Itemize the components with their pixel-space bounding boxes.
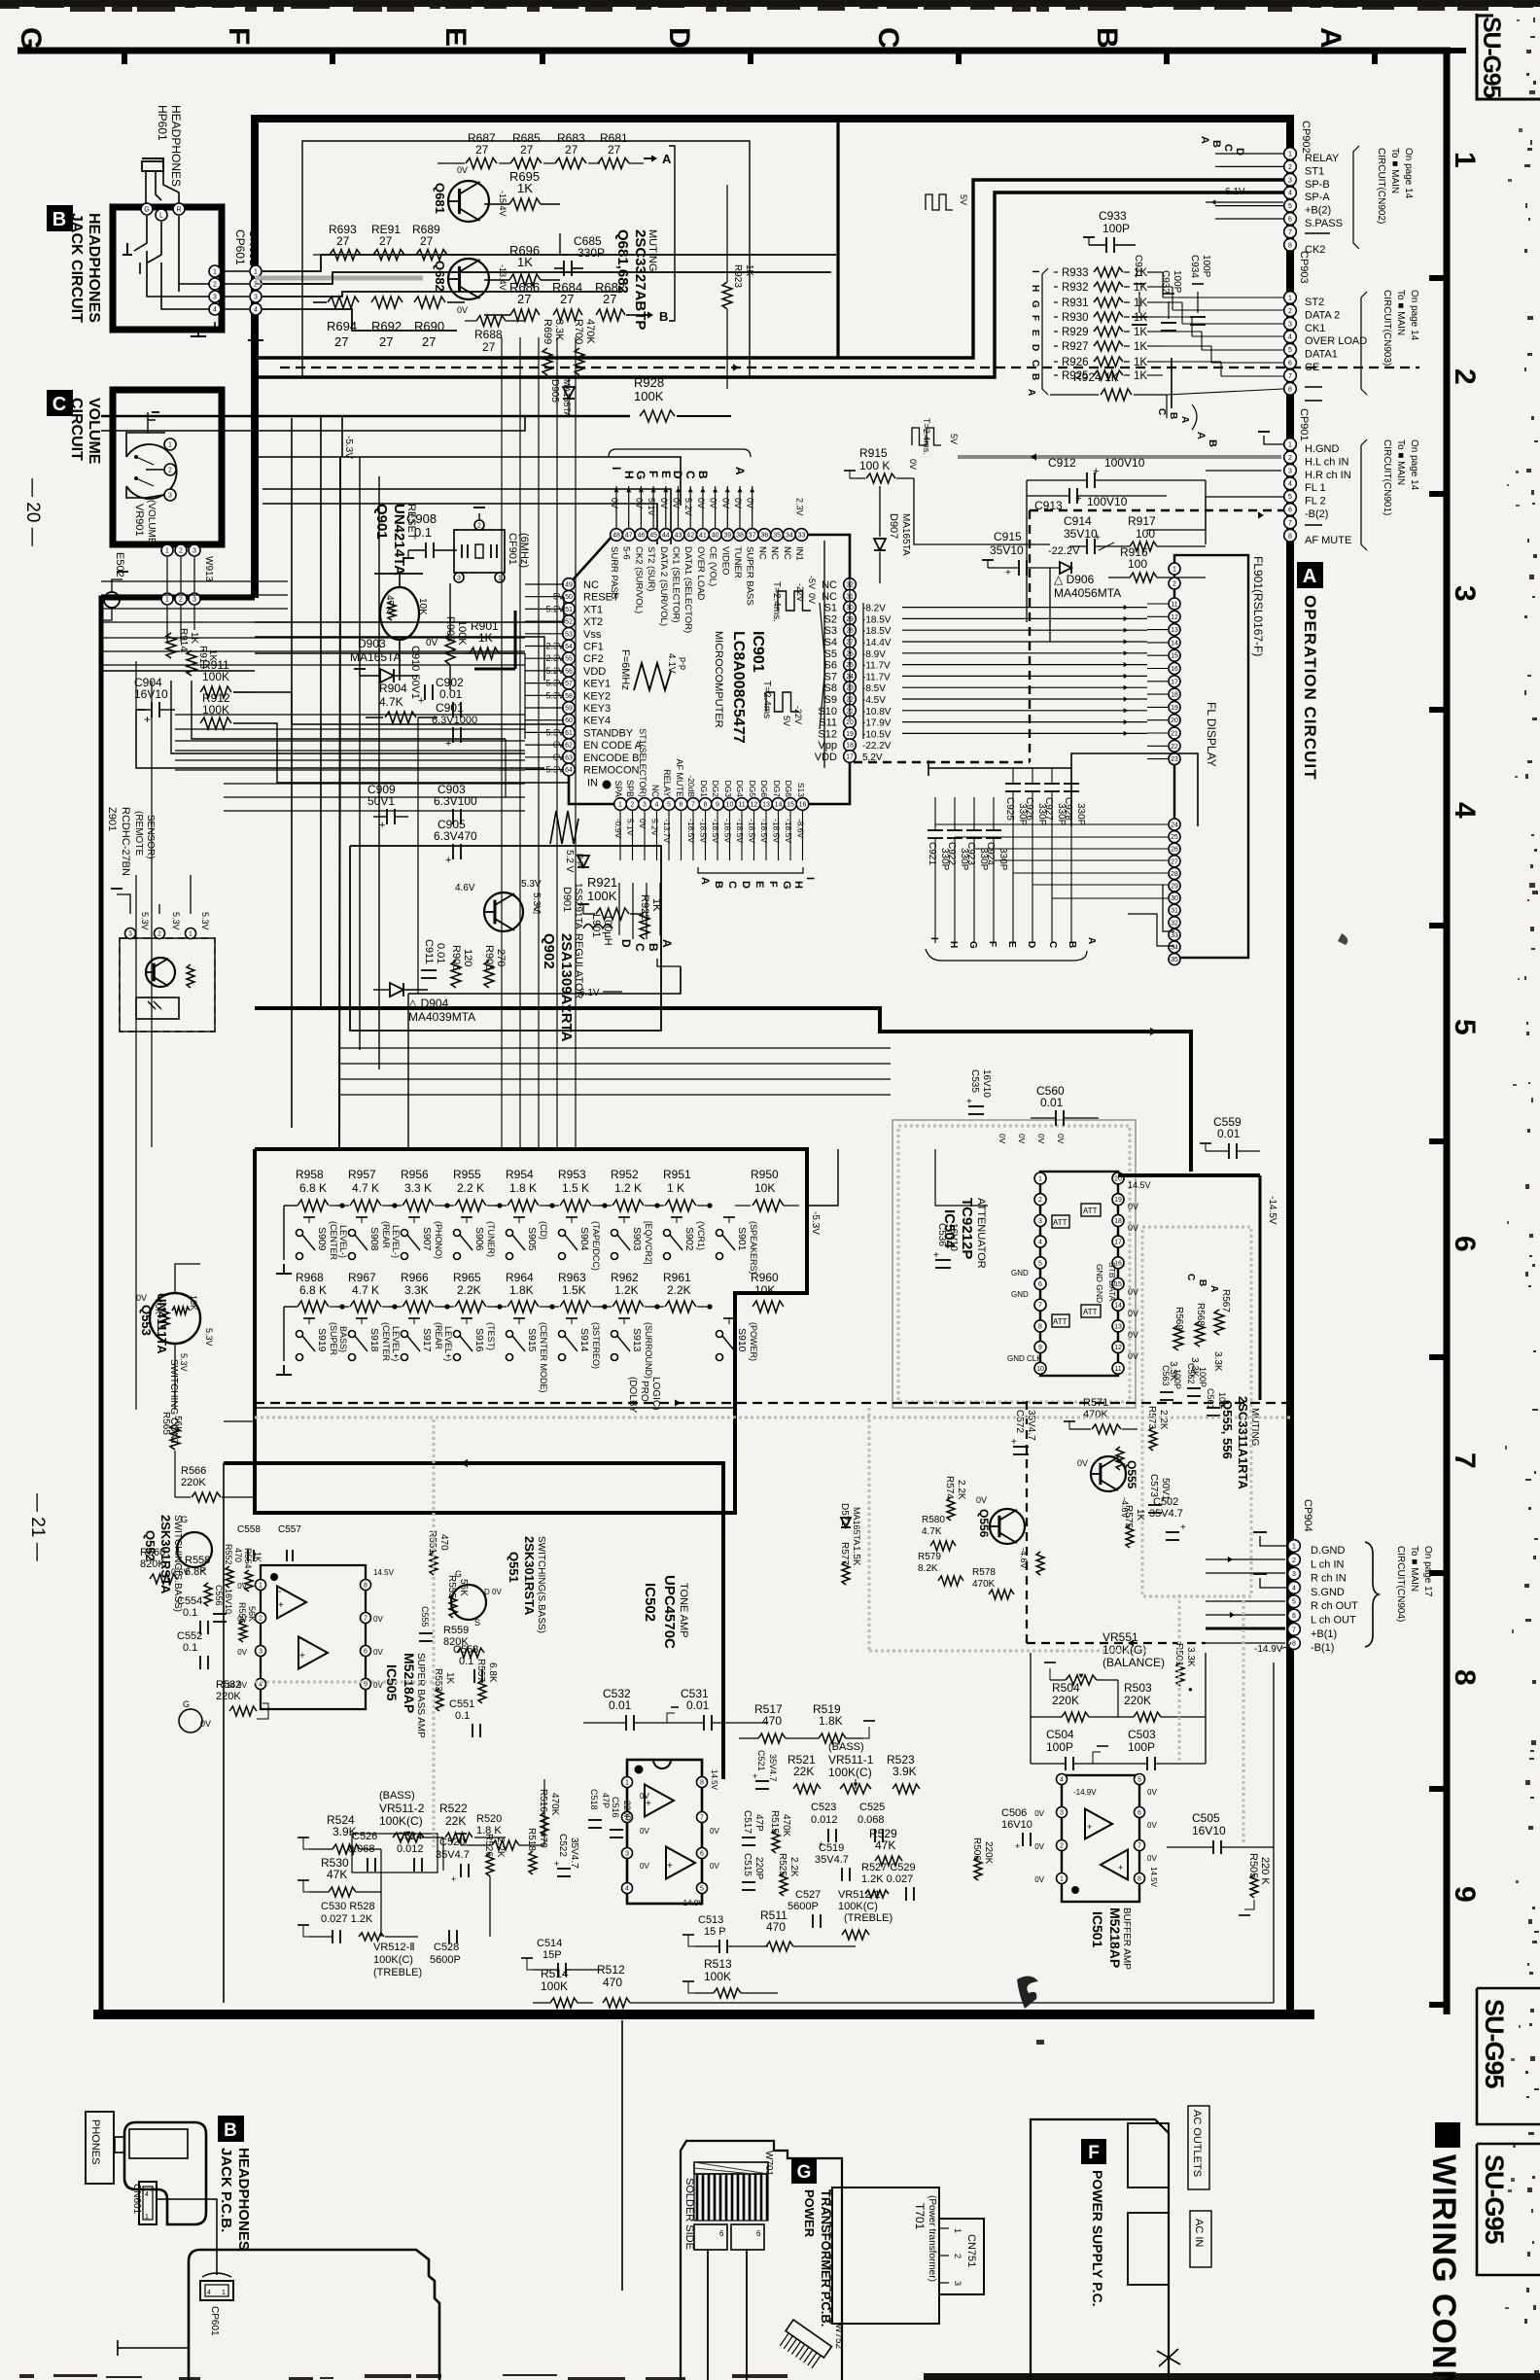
svg-text:R688: R688 bbox=[474, 328, 503, 341]
svg-text:7: 7 bbox=[1449, 1452, 1481, 1469]
Q553 wires bbox=[174, 1344, 176, 1410]
svg-text:1.8K: 1.8K bbox=[819, 1714, 843, 1728]
svg-text:C561: C561 bbox=[1206, 1388, 1215, 1410]
svg-text:-14.9V: -14.9V bbox=[224, 1681, 247, 1690]
wire network bbox=[101, 358, 1206, 2291]
svg-text:-22V: -22V bbox=[795, 583, 805, 602]
svg-text:+B(2): +B(2) bbox=[1305, 205, 1331, 217]
CP901 pin labels bbox=[1305, 443, 1351, 546]
svg-text:-10.8V: -10.8V bbox=[862, 707, 892, 717]
CP904 pins 1-8 bbox=[1288, 1540, 1301, 1650]
svg-text:0V: 0V bbox=[1034, 1809, 1044, 1818]
svg-text:A: A bbox=[1303, 566, 1316, 587]
svg-text:TC9212P: TC9212P bbox=[959, 1198, 975, 1259]
svg-text:C934: C934 bbox=[1189, 255, 1200, 278]
svg-text:C562: C562 bbox=[1186, 1363, 1196, 1384]
svg-text:100K: 100K bbox=[587, 889, 617, 903]
svg-text:— 20 —: — 20 — bbox=[22, 478, 43, 546]
svg-text:39: 39 bbox=[723, 533, 731, 540]
svg-text:10: 10 bbox=[1036, 1366, 1044, 1373]
svg-text:2: 2 bbox=[477, 523, 481, 530]
connector CN601 pins bbox=[209, 265, 221, 277]
wires VR901 to W913x bbox=[166, 557, 168, 592]
wire CP601-3 bus bbox=[262, 292, 622, 297]
svg-text:47P: 47P bbox=[753, 1814, 764, 1832]
svg-text:2SC3311A1RTA: 2SC3311A1RTA bbox=[1236, 1396, 1250, 1489]
svg-text:0.027 1.2K: 0.027 1.2K bbox=[321, 1913, 373, 1925]
svg-text:0V: 0V bbox=[634, 498, 644, 508]
svg-text:F=6MHz: F=6MHz bbox=[619, 649, 631, 690]
svg-text:GND: GND bbox=[1011, 1269, 1029, 1277]
svg-text:G: G bbox=[15, 27, 47, 50]
svg-text:2: 2 bbox=[1288, 164, 1292, 171]
jack pins G L R bbox=[141, 203, 153, 215]
svg-text:100P: 100P bbox=[1172, 270, 1182, 294]
svg-text:C: C bbox=[726, 881, 738, 889]
svg-text:22K: 22K bbox=[445, 1814, 466, 1828]
svg-text:-14.9V: -14.9V bbox=[1073, 1788, 1097, 1797]
svg-text:(SPEAKERS): (SPEAKERS) bbox=[749, 1221, 758, 1275]
svg-text:S919: S919 bbox=[316, 1328, 328, 1352]
svg-text:0V: 0V bbox=[672, 498, 682, 508]
transistor Q681 bbox=[448, 181, 489, 222]
svg-text:B: B bbox=[1091, 27, 1123, 49]
svg-text:820K: 820K bbox=[443, 1636, 469, 1648]
capacitors C925-C928 330P bbox=[1004, 768, 1086, 943]
svg-text:-8.2V: -8.2V bbox=[862, 604, 886, 614]
svg-text:-10.5V: -10.5V bbox=[862, 729, 892, 740]
svg-text:MA4039MTA: MA4039MTA bbox=[408, 1010, 475, 1024]
FL bottom stub wires bbox=[1128, 914, 1174, 946]
wires S1-S12 to FL display bbox=[902, 605, 1147, 736]
svg-text:R559: R559 bbox=[443, 1625, 469, 1636]
IC901 right pins 32-17 bbox=[844, 578, 857, 763]
svg-text:4.6V: 4.6V bbox=[455, 883, 475, 893]
svg-text:470K: 470K bbox=[584, 319, 596, 344]
svg-text:0V: 0V bbox=[1128, 1330, 1138, 1340]
wire 5.3V drop bbox=[341, 416, 343, 457]
svg-text:0.068: 0.068 bbox=[857, 1814, 885, 1826]
svg-text:+B(1): +B(1) bbox=[1311, 1628, 1337, 1640]
svg-text:BASS): BASS) bbox=[338, 1326, 348, 1352]
svg-text:-13.4V: -13.4V bbox=[498, 264, 507, 291]
section tag A bbox=[1297, 562, 1323, 588]
svg-text:C503: C503 bbox=[1128, 1728, 1156, 1741]
svg-text:CK1 (SELECTOR): CK1 (SELECTOR) bbox=[671, 546, 682, 622]
svg-text:14.5V: 14.5V bbox=[1128, 1180, 1151, 1190]
svg-text:R ch OUT: R ch OUT bbox=[1311, 1600, 1358, 1612]
svg-text:4.7K: 4.7K bbox=[379, 695, 403, 709]
svg-text:H.R ch IN: H.R ch IN bbox=[1305, 470, 1351, 481]
svg-text:0V: 0V bbox=[696, 498, 706, 508]
svg-text:(PHONO): (PHONO) bbox=[434, 1221, 443, 1259]
svg-text:0V: 0V bbox=[1147, 1821, 1157, 1830]
svg-text:2: 2 bbox=[259, 1616, 262, 1623]
grid ruler right ticks bbox=[1429, 278, 1447, 2005]
muting block border bbox=[302, 141, 750, 376]
svg-text:20: 20 bbox=[1171, 717, 1178, 724]
svg-text:35V4.7: 35V4.7 bbox=[436, 1849, 470, 1861]
wire row A arrow bbox=[644, 157, 653, 159]
svg-text:38: 38 bbox=[736, 533, 744, 540]
svg-text:R956: R956 bbox=[401, 1168, 429, 1181]
svg-text:2.2K: 2.2K bbox=[788, 1857, 799, 1877]
svg-text:VR511-1: VR511-1 bbox=[828, 1753, 874, 1767]
svg-text:0V: 0V bbox=[1147, 1788, 1157, 1797]
svg-text:5.1V: 5.1V bbox=[626, 819, 636, 836]
svg-text:A: A bbox=[1086, 937, 1097, 944]
svg-text:3: 3 bbox=[1292, 1571, 1296, 1578]
svg-text:C528: C528 bbox=[434, 1942, 459, 1953]
svg-text:S13: S13 bbox=[796, 783, 806, 797]
svg-text:H.L ch IN: H.L ch IN bbox=[1305, 456, 1348, 468]
cap ladder top rail bbox=[928, 767, 1071, 769]
svg-text:C516: C516 bbox=[611, 1797, 620, 1818]
svg-text:270: 270 bbox=[495, 949, 507, 966]
svg-text:R924 1K: R924 1K bbox=[1073, 370, 1119, 384]
power supply wire bbox=[1168, 2285, 1170, 2362]
svg-text:1K: 1K bbox=[1134, 267, 1147, 279]
svg-text:ST1(SELECTOR): ST1(SELECTOR) bbox=[638, 728, 647, 797]
CP902 wires bbox=[1215, 154, 1283, 219]
svg-text:(CENTER: (CENTER bbox=[381, 1322, 391, 1361]
wire cn601 to cp601 bbox=[157, 2199, 217, 2275]
svg-text:TONE AMP: TONE AMP bbox=[678, 1583, 689, 1638]
svg-text:3: 3 bbox=[254, 295, 258, 301]
waveform 5V CP902 side bbox=[926, 194, 953, 210]
svg-text:R957: R957 bbox=[348, 1168, 376, 1181]
svg-text:8: 8 bbox=[1288, 386, 1292, 393]
svg-text:2: 2 bbox=[1449, 368, 1481, 385]
svg-text:12: 12 bbox=[1171, 614, 1178, 621]
svg-text:UN4111TA: UN4111TA bbox=[155, 1293, 169, 1354]
IC901 bottom pins 1-16 bbox=[614, 798, 809, 811]
svg-text:53: 53 bbox=[565, 631, 573, 638]
svg-text:6: 6 bbox=[1137, 1810, 1141, 1817]
thick wire left down bbox=[223, 1463, 225, 2003]
svg-text:43: 43 bbox=[675, 533, 682, 540]
transformer connector hatch bbox=[694, 2162, 768, 2174]
connector CN601 bottom bbox=[139, 2182, 157, 2224]
transformer pcb outline bbox=[681, 2141, 842, 2380]
svg-text:18: 18 bbox=[846, 743, 854, 750]
svg-text:R503: R503 bbox=[1124, 1681, 1152, 1695]
resistors R694 R692 R690 bbox=[313, 301, 327, 303]
wire jack to CP601 bbox=[147, 251, 215, 297]
svg-text:1SS291TA: 1SS291TA bbox=[573, 883, 583, 929]
svg-text:G: G bbox=[181, 1515, 188, 1524]
svg-text:1.5 K: 1.5 K bbox=[562, 1181, 589, 1195]
svg-text:26: 26 bbox=[1171, 847, 1178, 854]
svg-text:SPA: SPA bbox=[613, 781, 623, 797]
svg-text:I: I bbox=[610, 467, 623, 470]
svg-text:4: 4 bbox=[207, 2290, 211, 2296]
CP902 pin labels bbox=[1305, 153, 1343, 256]
matrix bus rails bbox=[283, 1206, 285, 1260]
svg-text:F: F bbox=[1088, 2143, 1100, 2163]
VR901 top stub bbox=[148, 420, 156, 433]
svg-text:45: 45 bbox=[649, 533, 657, 540]
svg-text:46: 46 bbox=[638, 533, 646, 540]
jack pcb outline bbox=[189, 2250, 439, 2380]
svg-text:-22V: -22V bbox=[793, 706, 803, 724]
svg-text:1.2K 0.027: 1.2K 0.027 bbox=[861, 1873, 913, 1885]
svg-text:(BALANCE): (BALANCE) bbox=[1102, 1656, 1165, 1669]
svg-text:1K: 1K bbox=[1134, 327, 1147, 338]
svg-text:CIRCUIT: CIRCUIT bbox=[68, 398, 85, 461]
resistor ladder R933-R925 bbox=[1054, 267, 1147, 382]
svg-text:ATTENUATOR: ATTENUATOR bbox=[975, 1198, 987, 1269]
svg-text:47K: 47K bbox=[327, 1868, 347, 1881]
svg-text:C523: C523 bbox=[811, 1802, 836, 1813]
IC504 ATT boxes bbox=[1081, 1204, 1101, 1216]
main schematic frame bbox=[255, 119, 1290, 2011]
wire bottom bus1 bbox=[224, 2002, 1274, 2004]
svg-text:3.3K: 3.3K bbox=[1212, 1351, 1223, 1372]
svg-text:G: G bbox=[455, 1569, 462, 1579]
svg-text:27: 27 bbox=[482, 340, 496, 354]
svg-text:+: + bbox=[278, 1600, 284, 1611]
svg-text:C901: C901 bbox=[436, 701, 464, 715]
capacitors C921-C924 330P bbox=[927, 797, 1008, 943]
svg-text:POWER: POWER bbox=[802, 2189, 817, 2238]
svg-text:(VCR1): (VCR1) bbox=[696, 1221, 706, 1250]
stipple region attenuator bbox=[892, 1120, 1136, 1408]
svg-text:22K: 22K bbox=[793, 1765, 814, 1778]
svg-text:D901: D901 bbox=[561, 887, 573, 912]
SU-G95 label 2 box bbox=[1477, 1988, 1540, 2124]
svg-text:R518: R518 bbox=[526, 1828, 537, 1851]
AC outlet box2 bbox=[1128, 2213, 1169, 2285]
headphones jack circuit box bbox=[113, 207, 222, 330]
svg-text:[EQ/VCR2]: [EQ/VCR2] bbox=[644, 1221, 653, 1265]
svg-text:S6: S6 bbox=[824, 660, 837, 672]
section tag C bbox=[47, 390, 73, 416]
power supply outline bbox=[1031, 2119, 1169, 2380]
svg-text:0.012: 0.012 bbox=[397, 1843, 424, 1855]
thick wire pin20 bbox=[1118, 1173, 1260, 1177]
svg-text:220K: 220K bbox=[1124, 1694, 1151, 1707]
svg-text:6.1V: 6.1V bbox=[1225, 187, 1245, 197]
wires left frame area bbox=[101, 602, 136, 604]
svg-text:27: 27 bbox=[336, 234, 350, 248]
svg-text:S910: S910 bbox=[736, 1328, 748, 1352]
svg-text:-11.7V: -11.7V bbox=[862, 661, 891, 672]
svg-text:R690: R690 bbox=[414, 319, 444, 333]
svg-text:2: 2 bbox=[631, 802, 635, 809]
svg-text:3: 3 bbox=[1038, 1218, 1042, 1225]
svg-text:+: + bbox=[667, 1861, 673, 1872]
svg-text:1.8K: 1.8K bbox=[509, 1283, 534, 1297]
svg-text:SUPER BASS AMP: SUPER BASS AMP bbox=[415, 1653, 426, 1738]
Z901 top stub bbox=[117, 894, 130, 914]
svg-text:16V10: 16V10 bbox=[1192, 1824, 1226, 1837]
svg-text:R930: R930 bbox=[1062, 312, 1089, 324]
svg-text:47K: 47K bbox=[875, 1838, 895, 1852]
svg-text:56: 56 bbox=[565, 668, 573, 675]
svg-text:FL 2: FL 2 bbox=[1305, 496, 1326, 507]
svg-text:100P: 100P bbox=[1128, 1740, 1155, 1754]
svg-text:R921: R921 bbox=[587, 875, 617, 890]
svg-text:Q555, 556: Q555, 556 bbox=[1220, 1400, 1235, 1459]
svg-text:H: H bbox=[622, 471, 636, 479]
svg-text:2: 2 bbox=[1288, 308, 1292, 315]
svg-text:6: 6 bbox=[1288, 507, 1292, 514]
svg-text:SWITCHING(S.BASS): SWITCHING(S.BASS) bbox=[536, 1536, 546, 1633]
svg-text:C912: C912 bbox=[1048, 456, 1076, 470]
svg-text:18: 18 bbox=[1114, 1218, 1122, 1225]
svg-text:SUPER BASS: SUPER BASS bbox=[745, 546, 755, 606]
transistor Q556 bbox=[990, 1509, 1025, 1544]
svg-text:2.2K: 2.2K bbox=[1158, 1410, 1169, 1430]
svg-text:4: 4 bbox=[1449, 802, 1481, 819]
svg-text:(CENTER MODE): (CENTER MODE) bbox=[539, 1322, 548, 1393]
svg-text:D: D bbox=[671, 471, 684, 479]
svg-text:R927: R927 bbox=[1062, 341, 1089, 353]
svg-text:470: 470 bbox=[538, 1832, 548, 1848]
svg-text:C563: C563 bbox=[1161, 1365, 1171, 1386]
svg-text:40: 40 bbox=[712, 533, 719, 540]
svg-text:C933: C933 bbox=[1099, 209, 1127, 223]
svg-text:(TAPE/DCC): (TAPE/DCC) bbox=[591, 1221, 601, 1271]
svg-text:3: 3 bbox=[643, 802, 647, 809]
svg-text:-22.2V: -22.2V bbox=[1048, 545, 1080, 557]
T701 connector CN751 bbox=[939, 2219, 984, 2294]
svg-text:2.3V: 2.3V bbox=[795, 498, 805, 516]
svg-text:RELAY: RELAY bbox=[1305, 153, 1340, 164]
svg-text:D903: D903 bbox=[358, 637, 386, 650]
svg-text:0V: 0V bbox=[136, 1293, 147, 1303]
svg-text:100P: 100P bbox=[1102, 222, 1130, 235]
svg-text:1: 1 bbox=[189, 931, 192, 938]
section tag B bbox=[47, 205, 73, 231]
IC901 top pin labels bbox=[609, 546, 805, 633]
IC505 pins bbox=[256, 1580, 266, 1591]
dashed wire transformer bbox=[829, 2189, 831, 2324]
svg-text:To ■ MAIN: To ■ MAIN bbox=[1409, 1546, 1419, 1592]
svg-text:R: R bbox=[176, 207, 181, 214]
svg-text:H: H bbox=[948, 941, 959, 948]
svg-text:DATA 2 (SUR/VOL): DATA 2 (SUR/VOL) bbox=[658, 546, 669, 626]
svg-text:470K: 470K bbox=[549, 1793, 560, 1816]
svg-text:C515: C515 bbox=[742, 1853, 752, 1876]
svg-text:+: + bbox=[1118, 1863, 1123, 1872]
svg-text:FL901(RSL0167-F): FL901(RSL0167-F) bbox=[1251, 556, 1265, 656]
svg-text:ATT: ATT bbox=[1053, 1317, 1067, 1326]
svg-text:51: 51 bbox=[565, 607, 573, 613]
opamp IC505a bbox=[277, 1587, 306, 1619]
svg-text:11: 11 bbox=[1171, 602, 1177, 609]
svg-text:35V10: 35V10 bbox=[990, 543, 1024, 557]
grid ruler top ticks bbox=[124, 51, 1375, 64]
svg-text:100K(C): 100K(C) bbox=[828, 1766, 872, 1779]
svg-text:35: 35 bbox=[773, 533, 781, 540]
svg-text:55: 55 bbox=[565, 656, 573, 663]
svg-text:16V10: 16V10 bbox=[981, 1069, 992, 1098]
svg-text:2: 2 bbox=[1292, 1557, 1296, 1564]
svg-text:100K: 100K bbox=[541, 1979, 568, 1993]
svg-text:100: 100 bbox=[1128, 557, 1147, 571]
torn paper top edge bbox=[0, 0, 1540, 12]
svg-text:7: 7 bbox=[1288, 520, 1292, 527]
svg-text:31: 31 bbox=[1171, 908, 1178, 915]
svg-text:KEY4: KEY4 bbox=[583, 716, 611, 727]
svg-text:DG1: DG1 bbox=[699, 781, 709, 798]
VR901 wiper arrows bbox=[136, 457, 154, 465]
svg-text:R966: R966 bbox=[401, 1271, 429, 1284]
svg-text:DG8: DG8 bbox=[784, 781, 793, 798]
svg-text:0V: 0V bbox=[1128, 1351, 1138, 1361]
svg-text:-5V: -5V bbox=[807, 576, 817, 589]
svg-text:C: C bbox=[52, 394, 66, 415]
svg-text:C519: C519 bbox=[819, 1842, 844, 1854]
svg-text:R ch IN: R ch IN bbox=[1311, 1573, 1347, 1585]
svg-text:0V: 0V bbox=[638, 819, 647, 829]
svg-text:1K: 1K bbox=[1134, 357, 1147, 368]
svg-text:POWER SUPPLY P.C.: POWER SUPPLY P.C. bbox=[1090, 2170, 1105, 2307]
svg-text:IC502: IC502 bbox=[642, 1583, 658, 1622]
wire y428 with diode bbox=[101, 415, 630, 418]
svg-text:2: 2 bbox=[1172, 581, 1176, 588]
svg-text:4.7 K: 4.7 K bbox=[352, 1283, 379, 1297]
svg-text:R578: R578 bbox=[972, 1567, 996, 1578]
svg-text:29: 29 bbox=[1171, 884, 1178, 891]
svg-text:5600P: 5600P bbox=[430, 1954, 461, 1966]
grid ruler corner tick bbox=[1447, 48, 1466, 53]
svg-text:KEY2: KEY2 bbox=[583, 690, 611, 702]
svg-text:C535: C535 bbox=[969, 1069, 980, 1093]
svg-text:R955: R955 bbox=[453, 1168, 481, 1181]
svg-text:220K: 220K bbox=[181, 1477, 206, 1488]
svg-text:R950: R950 bbox=[751, 1168, 779, 1181]
svg-text:R565: R565 bbox=[160, 1412, 171, 1435]
svg-text:JACK CIRCUIT: JACK CIRCUIT bbox=[68, 213, 85, 323]
svg-text:2: 2 bbox=[1060, 1843, 1064, 1850]
svg-text:-13.7V: -13.7V bbox=[662, 819, 672, 843]
svg-text:50: 50 bbox=[565, 594, 573, 601]
svg-text:DG4: DG4 bbox=[735, 781, 745, 798]
svg-text:C530 R528: C530 R528 bbox=[321, 1901, 375, 1912]
svg-text:(CD): (CD) bbox=[539, 1221, 548, 1240]
svg-text:1: 1 bbox=[1292, 1544, 1296, 1551]
svg-text:2.2K: 2.2K bbox=[495, 1837, 506, 1858]
svg-text:16V10: 16V10 bbox=[948, 1223, 959, 1251]
svg-text:S909: S909 bbox=[316, 1227, 328, 1251]
svg-text:57: 57 bbox=[565, 681, 573, 687]
svg-text:100K(C): 100K(C) bbox=[373, 1954, 413, 1966]
svg-text:330P: 330P bbox=[997, 848, 1008, 871]
svg-text:LEVEL-): LEVEL-) bbox=[391, 1225, 401, 1258]
svg-text:47K: 47K bbox=[384, 595, 395, 612]
svg-text:15P: 15P bbox=[542, 1949, 562, 1961]
svg-text:1: 1 bbox=[165, 548, 169, 555]
svg-text:100K(C): 100K(C) bbox=[838, 1901, 878, 1912]
svg-text:ST1: ST1 bbox=[1305, 165, 1324, 177]
svg-text:FL DISPLAY: FL DISPLAY bbox=[1205, 702, 1218, 767]
svg-text:0V: 0V bbox=[976, 1495, 987, 1505]
svg-text:(TUNER): (TUNER) bbox=[486, 1221, 496, 1257]
svg-text:XT2: XT2 bbox=[583, 616, 603, 628]
svg-text:R513: R513 bbox=[704, 1957, 732, 1971]
svg-text:R961: R961 bbox=[663, 1271, 691, 1284]
svg-text:G: G bbox=[781, 881, 792, 890]
svg-text:-B(2): -B(2) bbox=[1305, 508, 1328, 520]
svg-text:R914: R914 bbox=[178, 628, 189, 651]
svg-text:Q551: Q551 bbox=[507, 1552, 521, 1583]
transformer lug boxes bbox=[694, 2224, 727, 2250]
svg-text:35V4.7: 35V4.7 bbox=[768, 1754, 778, 1782]
IC901 left pin labels bbox=[583, 579, 643, 777]
